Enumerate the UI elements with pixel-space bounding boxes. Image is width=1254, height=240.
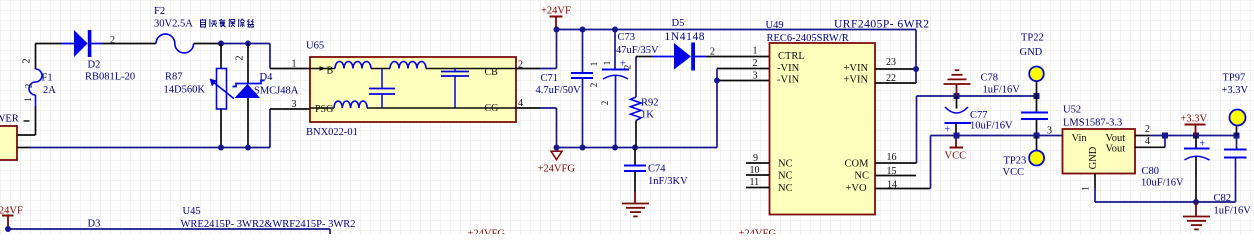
- svg-text:C77: C77: [970, 110, 988, 121]
- svg-text:TP97: TP97: [1223, 73, 1246, 84]
- svg-text:1: 1: [753, 46, 758, 57]
- svg-text:-VIN: -VIN: [777, 63, 800, 74]
- svg-text:NC: NC: [778, 183, 793, 194]
- svg-text:2: 2: [753, 58, 758, 69]
- svg-text:Vout: Vout: [1106, 133, 1126, 144]
- svg-text:2: 2: [710, 47, 715, 58]
- svg-text:REC6-2405SRW/R: REC6-2405SRW/R: [767, 33, 849, 44]
- svg-text:1nF/3KV: 1nF/3KV: [648, 176, 688, 187]
- svg-text:C71: C71: [541, 73, 559, 84]
- svg-text:URF2405P- 6WR2: URF2405P- 6WR2: [834, 19, 930, 31]
- svg-text:Vin: Vin: [1072, 133, 1088, 144]
- svg-text:-VIN: -VIN: [777, 75, 800, 86]
- svg-text:+VIN: +VIN: [844, 75, 869, 86]
- svg-text:2A: 2A: [43, 85, 56, 96]
- svg-text:+: +: [945, 125, 951, 136]
- svg-text:3: 3: [292, 99, 297, 110]
- svg-text:Vout: Vout: [1106, 144, 1126, 155]
- svg-text:D3: D3: [88, 219, 101, 230]
- svg-text:SMCJ48A: SMCJ48A: [254, 86, 299, 97]
- svg-text:C74: C74: [648, 164, 666, 175]
- svg-text:2: 2: [518, 60, 523, 71]
- svg-text:+3.3V: +3.3V: [1222, 85, 1249, 96]
- svg-text:4: 4: [1145, 136, 1150, 147]
- svg-text:NC: NC: [778, 171, 793, 182]
- svg-text:U52: U52: [1063, 105, 1081, 116]
- svg-text:30V2.5A: 30V2.5A: [154, 19, 193, 30]
- svg-text:4.7uF/50V: 4.7uF/50V: [536, 85, 582, 96]
- svg-text:+24VFG: +24VFG: [538, 164, 576, 175]
- svg-text:1: 1: [602, 61, 612, 66]
- svg-text:PSG: PSG: [315, 104, 333, 115]
- svg-text:NC: NC: [778, 159, 793, 170]
- svg-text:1uF/16V: 1uF/16V: [1214, 206, 1252, 217]
- svg-text:1: 1: [23, 97, 33, 102]
- svg-text:CG: CG: [485, 103, 499, 114]
- svg-text:2: 2: [24, 84, 34, 89]
- svg-text:U65: U65: [306, 41, 324, 52]
- svg-text:VCC: VCC: [945, 151, 967, 162]
- svg-text:F2: F2: [154, 6, 165, 17]
- svg-text:23: 23: [886, 57, 896, 68]
- svg-text:U45: U45: [183, 206, 201, 217]
- svg-text:1: 1: [292, 59, 297, 70]
- svg-text:2: 2: [110, 35, 115, 46]
- svg-text:4: 4: [518, 98, 523, 109]
- svg-text:+24VFG: +24VFG: [739, 229, 777, 235]
- svg-text:D5: D5: [672, 18, 685, 29]
- svg-text:R92: R92: [641, 98, 659, 109]
- svg-text:+3.3V: +3.3V: [1181, 114, 1208, 125]
- svg-text:2: 2: [589, 83, 599, 88]
- svg-text:B: B: [327, 66, 334, 77]
- svg-text:R87: R87: [165, 72, 183, 83]
- svg-text:C73: C73: [618, 32, 636, 43]
- svg-text:WRE2415P- 3WR2&WRF2415P- 3WR2: WRE2415P- 3WR2&WRF2415P- 3WR2: [181, 219, 356, 230]
- svg-text:+24VF: +24VF: [541, 6, 571, 17]
- svg-text:2: 2: [235, 56, 246, 61]
- svg-text:1: 1: [1081, 186, 1091, 191]
- svg-text:F1: F1: [42, 73, 53, 84]
- svg-text:+VIN: +VIN: [844, 63, 869, 74]
- svg-text:47uF/35V: 47uF/35V: [616, 45, 659, 56]
- svg-text:10uF/16V: 10uF/16V: [1141, 178, 1184, 189]
- svg-text:GND: GND: [1088, 146, 1099, 169]
- svg-text:2: 2: [22, 59, 33, 64]
- svg-text:LMS1587-3.3: LMS1587-3.3: [1063, 118, 1122, 129]
- svg-text:1K: 1K: [641, 110, 654, 121]
- svg-text:CB: CB: [485, 67, 499, 78]
- svg-text:3: 3: [1047, 126, 1052, 137]
- svg-text:VCC: VCC: [1003, 167, 1025, 178]
- svg-text:+VO: +VO: [846, 183, 868, 194]
- svg-text:NC: NC: [854, 171, 869, 182]
- svg-text:TP22: TP22: [1021, 33, 1044, 44]
- svg-text:16: 16: [887, 152, 897, 163]
- svg-text:CTRL: CTRL: [778, 51, 805, 62]
- svg-text:COM: COM: [845, 159, 870, 170]
- svg-text:2: 2: [623, 65, 633, 70]
- svg-text:2: 2: [1145, 124, 1150, 135]
- svg-text:2: 2: [600, 101, 610, 106]
- svg-text:D2: D2: [88, 60, 101, 71]
- svg-text:RB081L-20: RB081L-20: [85, 72, 135, 83]
- svg-text:D4: D4: [260, 72, 274, 83]
- svg-text:1uF/16V: 1uF/16V: [983, 85, 1021, 96]
- svg-text:3: 3: [753, 71, 758, 82]
- svg-text:11: 11: [750, 177, 760, 188]
- svg-text:BNX022-01: BNX022-01: [306, 127, 358, 138]
- svg-text:+24VFG: +24VFG: [468, 229, 506, 235]
- svg-text:1: 1: [589, 62, 599, 67]
- svg-text:14D560K: 14D560K: [164, 85, 206, 96]
- svg-text:C80: C80: [1142, 166, 1160, 177]
- svg-text:TP23: TP23: [1004, 156, 1027, 167]
- svg-text:POWER: POWER: [0, 114, 19, 125]
- svg-text:GND: GND: [1020, 47, 1043, 58]
- svg-text:C78: C78: [981, 73, 999, 84]
- svg-text:U49: U49: [766, 20, 784, 31]
- svg-text:1N4148: 1N4148: [665, 31, 706, 43]
- svg-text:10uF/16V: 10uF/16V: [970, 121, 1013, 132]
